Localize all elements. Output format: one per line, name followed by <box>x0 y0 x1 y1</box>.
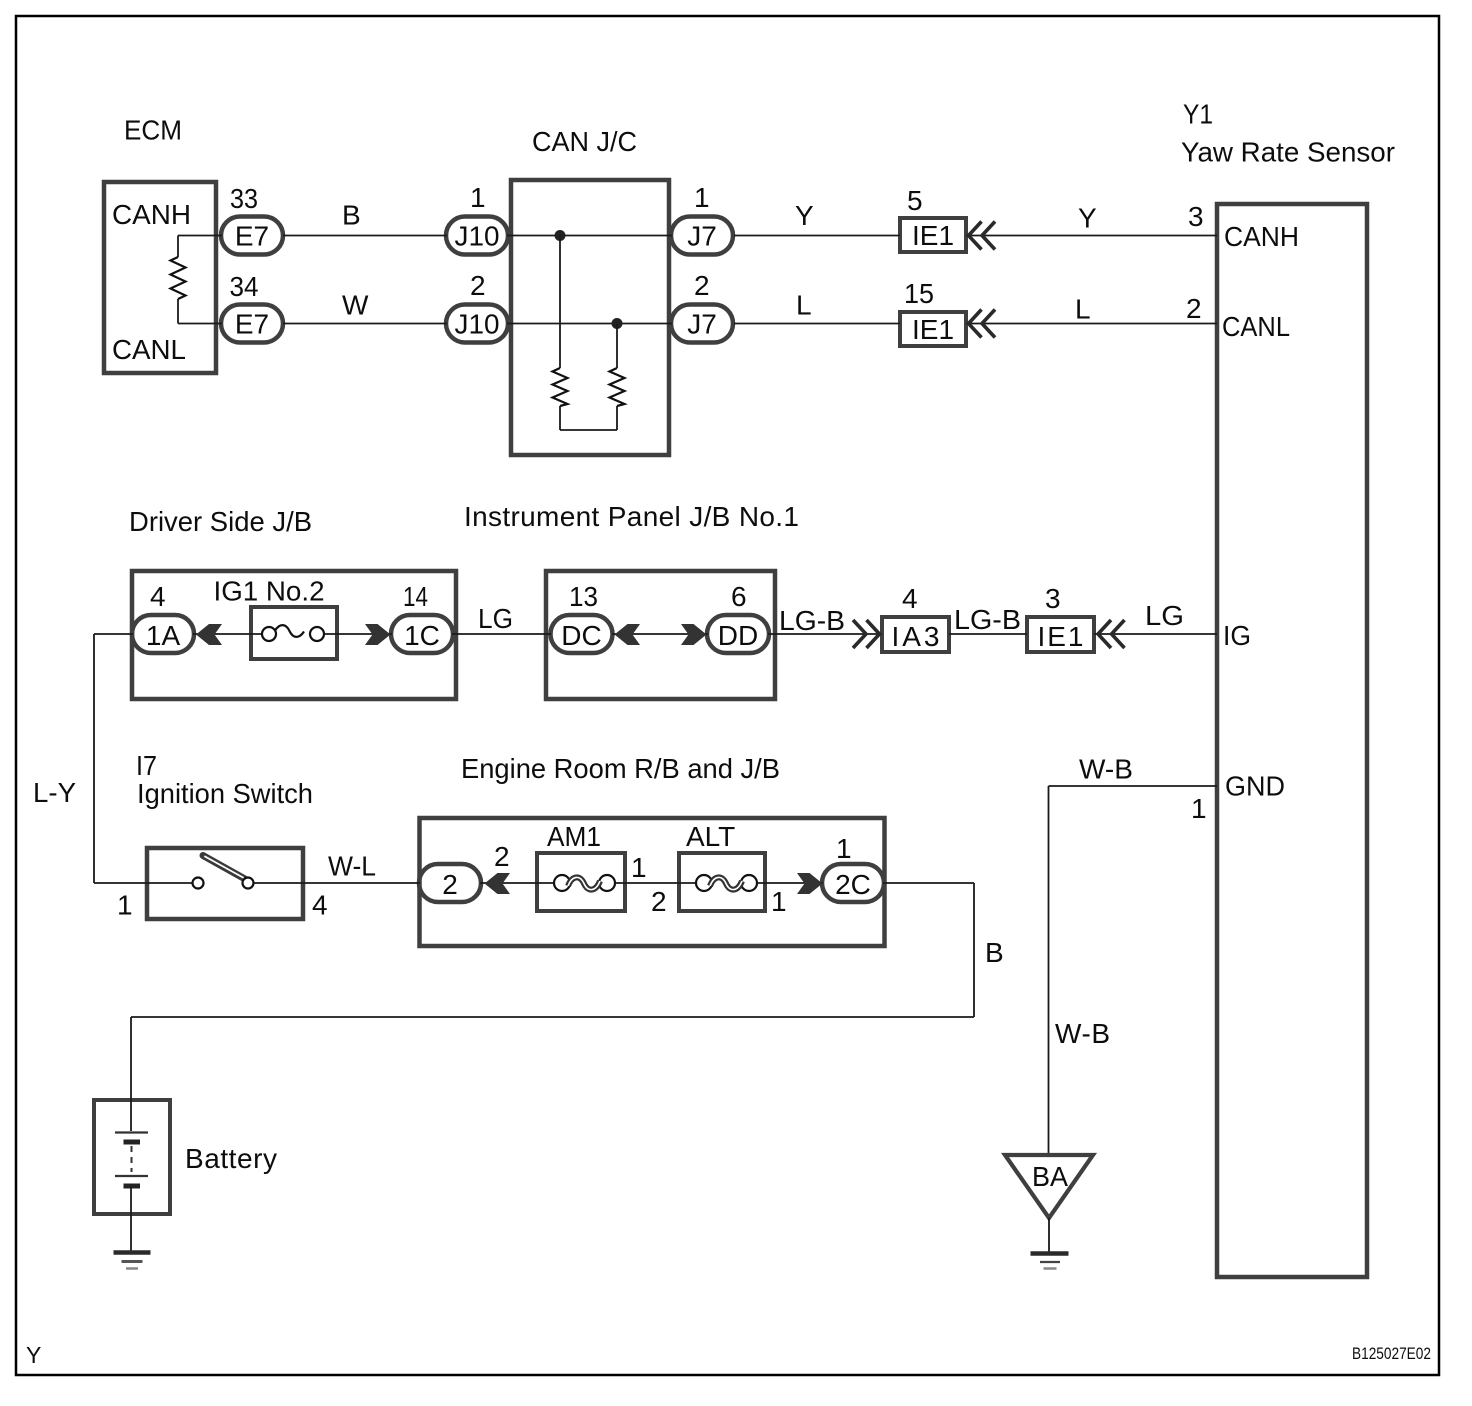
svg-text:4: 4 <box>312 890 328 921</box>
fusible link AM1 element <box>554 875 570 891</box>
wire battery feed down <box>130 1017 132 1131</box>
svg-text:IA3: IA3 <box>892 621 940 652</box>
wire fuse IG1 to 1C <box>324 633 392 635</box>
connector oval DD pin 6 <box>707 615 769 653</box>
svg-text:LG: LG <box>478 603 513 634</box>
svg-text:1: 1 <box>631 852 647 883</box>
wire Y IE1 to yaw rate sensor CANH <box>966 235 1217 237</box>
svg-text:2: 2 <box>694 270 710 301</box>
CAN J/C box <box>511 180 669 455</box>
svg-text:B125027E02: B125027E02 <box>1352 1344 1431 1363</box>
svg-text:14: 14 <box>403 581 428 612</box>
wire CANH through CAN J/C <box>507 235 672 237</box>
wire stub CANL inside ECM <box>178 323 222 325</box>
resistor left inside CAN J/C <box>553 368 568 406</box>
svg-text:Y: Y <box>26 1342 41 1368</box>
wire L J7 to IE1 <box>734 323 900 325</box>
wire from CANH junction down <box>559 236 561 369</box>
fuse IG1 No.2 element <box>262 627 276 641</box>
wire oval 2 to AM1 <box>480 882 554 884</box>
wire W-L ignition switch pin 4 to oval 2 <box>254 882 420 884</box>
wire L-Y to ignition switch pin 1 <box>94 882 192 884</box>
wire B horizontal to battery <box>131 1016 974 1018</box>
fusible link ALT element <box>696 875 712 891</box>
svg-text:GND: GND <box>1225 771 1285 802</box>
chevrons after IE1 pin 5 (point left) <box>969 222 982 250</box>
ECM box <box>104 182 216 373</box>
connector oval 2 pin 2 <box>419 864 481 902</box>
connector oval J7 pin 1 <box>671 217 733 255</box>
arrow into oval 2 (filled, points left) <box>485 873 511 894</box>
fusible link ALT box <box>679 853 765 911</box>
chevrons after IE1 pin 3 (point left) <box>1098 620 1111 648</box>
svg-text:ALT: ALT <box>686 821 735 852</box>
svg-text:ECM: ECM <box>124 115 182 146</box>
connector oval J7 pin 2 <box>671 305 733 343</box>
wire W-B GND from yaw rate sensor <box>1049 785 1218 787</box>
svg-text:15: 15 <box>904 278 934 309</box>
ground triangle BA <box>1005 1155 1093 1218</box>
svg-text:4: 4 <box>150 581 166 612</box>
svg-text:Y1: Y1 <box>1183 99 1213 130</box>
svg-text:1: 1 <box>470 182 486 213</box>
connector IE1 pin 15 box <box>900 312 966 346</box>
earth ground under BA <box>1031 1251 1069 1256</box>
connector oval DC pin 13 <box>551 615 613 653</box>
wire DC to DD <box>612 633 708 635</box>
wire B from 2C to corner <box>883 882 974 884</box>
svg-text:2: 2 <box>494 841 510 872</box>
wire battery to ground <box>130 1186 132 1251</box>
arrow into 1A (filled, points left) <box>196 624 222 645</box>
connector IE1 pin 3 box <box>1027 617 1094 652</box>
svg-text:DD: DD <box>718 620 758 651</box>
svg-text:IG1 No.2: IG1 No.2 <box>214 576 325 607</box>
svg-text:CANL: CANL <box>1222 311 1290 342</box>
svg-text:Instrument Panel J/B No.1: Instrument Panel J/B No.1 <box>464 501 799 532</box>
Driver Side J/B box <box>132 571 456 699</box>
svg-text:3: 3 <box>1045 583 1061 614</box>
connector oval E7 pin 34 <box>221 305 283 343</box>
svg-text:Engine Room R/B and J/B: Engine Room R/B and J/B <box>461 753 780 784</box>
fuse IG1 No.2 box <box>251 607 337 659</box>
svg-text:4: 4 <box>902 583 918 614</box>
svg-text:2: 2 <box>470 270 486 301</box>
ignition switch lever <box>203 856 245 880</box>
wire L IE1 to yaw rate sensor CANL <box>966 323 1217 325</box>
svg-text:J7: J7 <box>687 309 717 340</box>
svg-text:1C: 1C <box>404 620 440 651</box>
wire from CANL junction down <box>616 324 618 369</box>
svg-text:L: L <box>796 290 812 321</box>
wire LG 1C to DC <box>452 633 551 635</box>
wire Y J7 to IE1 <box>734 235 900 237</box>
svg-text:13: 13 <box>569 581 598 612</box>
svg-text:Y: Y <box>1078 203 1097 234</box>
wire W-B vertical to ground BA <box>1048 786 1050 1155</box>
svg-text:CANH: CANH <box>112 199 191 230</box>
svg-text:L-Y: L-Y <box>33 777 76 808</box>
svg-text:Ignition Switch: Ignition Switch <box>137 778 313 809</box>
svg-text:W-B: W-B <box>1055 1018 1110 1049</box>
svg-text:Yaw Rate Sensor: Yaw Rate Sensor <box>1181 137 1395 168</box>
svg-text:CANL: CANL <box>112 334 186 365</box>
svg-text:IE1: IE1 <box>912 220 954 251</box>
svg-text:1A: 1A <box>146 620 181 651</box>
svg-text:CANH: CANH <box>1224 221 1299 252</box>
connector oval 2C pin 1 <box>822 864 884 902</box>
svg-text:2C: 2C <box>835 869 871 900</box>
svg-text:IG: IG <box>1223 620 1251 651</box>
svg-text:Y: Y <box>795 200 814 231</box>
svg-text:6: 6 <box>731 581 747 612</box>
svg-text:E7: E7 <box>235 309 269 340</box>
chevrons after IE1 pin 15 (point left) <box>969 310 982 338</box>
arrow into 2C (filled, points right) <box>797 873 823 894</box>
wire stub CANH inside ECM <box>178 235 222 237</box>
wire B vertical down <box>973 883 975 1017</box>
svg-text:2: 2 <box>442 869 458 900</box>
arrow into DC (filled, points left) <box>615 624 641 645</box>
svg-text:34: 34 <box>230 271 259 302</box>
connector oval J10 pin 1 <box>446 217 508 255</box>
svg-text:L: L <box>1075 294 1091 325</box>
svg-text:1: 1 <box>836 833 852 864</box>
wire L-Y from 1A left <box>94 633 133 635</box>
battery cell plates <box>115 1131 148 1133</box>
node junction dot on CANL inside CAN J/C <box>612 318 623 329</box>
connector IA3 pin 4 box <box>882 617 949 652</box>
svg-text:J10: J10 <box>455 309 500 340</box>
arrow into DD (filled, points right) <box>681 624 707 645</box>
svg-text:CAN J/C: CAN J/C <box>532 126 637 157</box>
wire AM1 to ALT <box>615 882 696 884</box>
svg-text:B: B <box>985 937 1004 968</box>
svg-text:W-L: W-L <box>328 851 376 882</box>
node junction dot on CANH inside CAN J/C <box>555 230 566 241</box>
connector IE1 pin 5 box <box>900 218 966 252</box>
wire bottom link between resistors <box>560 429 617 431</box>
svg-text:B: B <box>342 200 361 231</box>
battery box <box>94 1100 170 1214</box>
svg-text:W: W <box>342 290 369 321</box>
wire LG-B IA3 to IE1 <box>949 633 1027 635</box>
connector oval E7 pin 33 <box>221 217 283 255</box>
svg-text:1: 1 <box>117 890 133 921</box>
wire W ECM E7 to J10 (CANL row) <box>283 323 447 325</box>
svg-text:1: 1 <box>771 886 787 917</box>
svg-text:Battery: Battery <box>185 1143 277 1174</box>
svg-text:LG-B: LG-B <box>954 604 1021 635</box>
ignition switch contacts <box>193 878 204 889</box>
connector oval 1A pin 4 <box>132 615 194 653</box>
svg-text:33: 33 <box>230 183 258 214</box>
svg-text:Driver Side J/B: Driver Side J/B <box>129 506 312 537</box>
ground under battery <box>114 1250 151 1255</box>
connector oval 1C pin 14 <box>391 615 453 653</box>
wire left resistor to bottom link <box>559 406 561 430</box>
arrow into 1C (filled, points right) <box>365 624 391 645</box>
chevrons before IA3 (point right) <box>853 620 866 648</box>
wire LG-B DD to IA3 <box>768 633 882 635</box>
resistor inside ECM (terminating) <box>177 236 179 258</box>
svg-text:IE1: IE1 <box>912 314 954 345</box>
svg-text:BA: BA <box>1032 1161 1068 1192</box>
wire LG IE1 to yaw rate sensor IG <box>1094 633 1217 635</box>
svg-text:1: 1 <box>694 182 710 213</box>
svg-text:1: 1 <box>1191 793 1207 824</box>
ignition switch I7 box <box>147 848 303 919</box>
svg-text:LG-B: LG-B <box>779 605 845 636</box>
fusible link AM1 box <box>537 853 625 911</box>
svg-text:2: 2 <box>651 886 667 917</box>
Engine Room R/B and J/B box <box>420 818 885 946</box>
wire 1A to fuse IG1 <box>193 633 262 635</box>
svg-text:LG: LG <box>1145 600 1184 631</box>
svg-text:5: 5 <box>907 185 923 216</box>
wire right resistor to bottom link <box>616 406 618 430</box>
Instrument Panel J/B No.1 box <box>546 571 775 699</box>
svg-text:AM1: AM1 <box>547 821 601 852</box>
svg-text:W-B: W-B <box>1079 754 1133 785</box>
Yaw Rate Sensor Y1 box <box>1217 204 1367 1277</box>
svg-text:IE1: IE1 <box>1038 621 1084 652</box>
svg-text:E7: E7 <box>235 221 269 252</box>
svg-text:I7: I7 <box>136 750 157 781</box>
svg-text:J10: J10 <box>455 221 500 252</box>
wire BA triangle to earth <box>1048 1218 1050 1252</box>
wire B ECM E7 to J10 (CANH row) <box>283 235 447 237</box>
svg-text:J7: J7 <box>687 221 717 252</box>
svg-text:2: 2 <box>1186 293 1202 324</box>
wire ALT to 2C <box>757 882 823 884</box>
svg-text:3: 3 <box>1188 201 1204 232</box>
svg-text:DC: DC <box>561 620 601 651</box>
wire CANL through CAN J/C <box>507 323 672 325</box>
connector oval J10 pin 2 <box>446 305 508 343</box>
wire L-Y vertical <box>93 634 95 883</box>
resistor right inside CAN J/C <box>610 368 625 406</box>
